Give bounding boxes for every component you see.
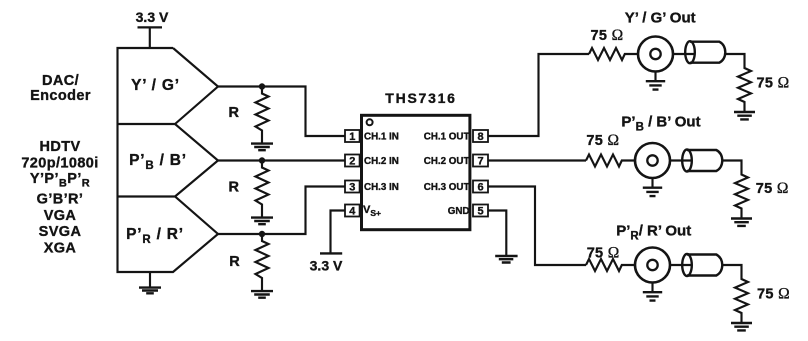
svg-text:GND: GND bbox=[448, 206, 470, 217]
svg-text:3: 3 bbox=[349, 182, 355, 194]
svg-text:6: 6 bbox=[477, 182, 483, 194]
svg-text:Y’P’BP’R: Y’P’BP’R bbox=[30, 171, 90, 190]
svg-text:CH.3 IN: CH.3 IN bbox=[364, 182, 399, 193]
svg-text:SVGA: SVGA bbox=[39, 224, 82, 240]
svg-text:8: 8 bbox=[477, 131, 483, 143]
svg-text:CH.3 OUT: CH.3 OUT bbox=[424, 182, 470, 193]
svg-text:Encoder: Encoder bbox=[30, 88, 91, 104]
svg-text:CH.2 OUT: CH.2 OUT bbox=[424, 156, 470, 167]
svg-text:3.3 V: 3.3 V bbox=[310, 258, 343, 274]
svg-text:P’B / B’ Out: P’B / B’ Out bbox=[621, 114, 700, 134]
svg-text:HDTV: HDTV bbox=[39, 139, 80, 155]
svg-text:75 Ω: 75 Ω bbox=[591, 27, 624, 44]
svg-text:VS+: VS+ bbox=[363, 204, 381, 218]
svg-text:75 Ω: 75 Ω bbox=[757, 75, 790, 92]
svg-text:Y’ / G’: Y’ / G’ bbox=[131, 77, 180, 94]
svg-text:R: R bbox=[229, 105, 240, 121]
svg-text:CH.1 IN: CH.1 IN bbox=[364, 132, 399, 143]
svg-text:P’R / R’: P’R / R’ bbox=[126, 226, 184, 246]
svg-text:P’R/ R’ Out: P’R/ R’ Out bbox=[616, 223, 691, 243]
svg-text:R: R bbox=[229, 254, 240, 270]
svg-text:XGA: XGA bbox=[44, 240, 77, 256]
svg-text:VGA: VGA bbox=[44, 208, 77, 224]
svg-text:G’B’R’: G’B’R’ bbox=[37, 192, 84, 208]
svg-text:75 Ω: 75 Ω bbox=[757, 286, 790, 303]
svg-text:1: 1 bbox=[349, 131, 355, 143]
svg-text:4: 4 bbox=[349, 206, 356, 218]
svg-text:Y’ / G’ Out: Y’ / G’ Out bbox=[625, 10, 696, 27]
svg-text:R: R bbox=[229, 180, 240, 196]
svg-text:CH.2 IN: CH.2 IN bbox=[364, 156, 399, 167]
svg-text:3.3 V: 3.3 V bbox=[136, 9, 169, 25]
svg-text:DAC/: DAC/ bbox=[42, 73, 79, 89]
svg-text:720p/1080i: 720p/1080i bbox=[21, 156, 98, 172]
svg-text:7: 7 bbox=[477, 156, 483, 168]
svg-text:5: 5 bbox=[477, 206, 483, 218]
svg-text:THS7316: THS7316 bbox=[385, 90, 456, 106]
svg-text:P’B / B’: P’B / B’ bbox=[129, 152, 187, 172]
svg-text:2: 2 bbox=[349, 156, 355, 168]
svg-text:75 Ω: 75 Ω bbox=[587, 244, 620, 261]
svg-text:75 Ω: 75 Ω bbox=[756, 180, 789, 197]
svg-text:75 Ω: 75 Ω bbox=[586, 132, 619, 149]
svg-text:CH.1 OUT: CH.1 OUT bbox=[424, 132, 470, 143]
